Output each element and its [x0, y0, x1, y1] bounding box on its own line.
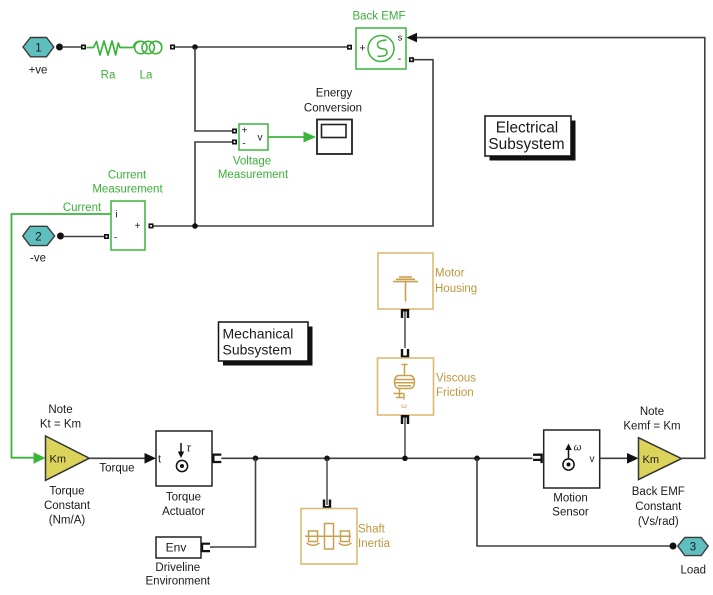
- svg-text:Ra: Ra: [101, 70, 116, 82]
- svg-text:Torque: Torque: [49, 486, 84, 498]
- svg-text:Motion: Motion: [553, 493, 588, 505]
- scope Energy Conversion: [317, 120, 352, 155]
- svg-text:+: +: [135, 221, 141, 232]
- Voltage Measurement + connector square: [232, 129, 237, 134]
- block Motion Sensor: [544, 430, 600, 488]
- node square right of inductor: [170, 45, 175, 50]
- port 2 (-ve): [23, 226, 55, 264]
- svg-text:-: -: [398, 53, 402, 65]
- svg-text:(Vs/rad): (Vs/rad): [638, 516, 679, 528]
- arrowhead into torque actuator: [145, 453, 157, 464]
- svg-text:i: i: [115, 210, 117, 221]
- wire shaft junction down to Load port: [477, 458, 670, 546]
- annotation Electrical Subsystem: [485, 116, 576, 161]
- svg-text:Friction: Friction: [436, 387, 474, 399]
- junction to Env: [253, 456, 259, 462]
- port 3 (Load): [678, 537, 708, 576]
- svg-text:Energy: Energy: [316, 88, 353, 100]
- svg-text:Sensor: Sensor: [552, 507, 589, 519]
- gain Km Torque Constant: [46, 436, 90, 480]
- svg-text:Voltage: Voltage: [233, 156, 271, 168]
- svg-text:Inertia: Inertia: [358, 538, 391, 550]
- junction node B: [192, 223, 198, 229]
- wire port2 to current measurement -: [63, 236, 104, 238]
- Shaft Inertia top port bracket: [323, 500, 331, 509]
- junction to Load: [474, 456, 480, 462]
- damper Viscous Friction: [378, 358, 434, 415]
- svg-text:(Nm/A): (Nm/A): [49, 515, 86, 527]
- svg-text:Housing: Housing: [435, 283, 477, 295]
- voltage source U1 Back EMF: [356, 28, 406, 69]
- svg-text:+: +: [359, 43, 365, 55]
- port 1 (+ve): [23, 38, 54, 77]
- Voltage Measurement - connector square: [232, 140, 237, 145]
- svg-text:Kt = Km: Kt = Km: [40, 418, 81, 430]
- Motion Sensor input port bracket: [533, 454, 543, 464]
- Torque Actuator output port bracket: [212, 454, 221, 464]
- Viscous Friction top port bracket: [401, 349, 409, 358]
- svg-text:1: 1: [35, 43, 41, 55]
- svg-text:+ve: +ve: [29, 65, 48, 77]
- Env output port bracket: [201, 543, 210, 553]
- svg-text:s: s: [398, 33, 403, 44]
- svg-text:v: v: [590, 454, 595, 465]
- wire Motor Housing to Viscous Friction: [404, 312, 406, 349]
- svg-text:Current: Current: [63, 202, 102, 214]
- junction to Viscous Friction: [402, 456, 408, 462]
- svg-text:Actuator: Actuator: [162, 506, 205, 518]
- wire Env to shaft: [210, 458, 256, 547]
- resistor Ra: [87, 41, 134, 55]
- inductor La: [134, 41, 163, 53]
- svg-text:ω: ω: [574, 443, 582, 454]
- wire node A down to voltage measurement +: [195, 48, 233, 131]
- port 1 output dot: [56, 44, 63, 51]
- arrowhead into Back EMF Constant gain: [627, 453, 639, 464]
- svg-text:Driveline: Driveline: [155, 562, 200, 574]
- svg-text:Load: Load: [681, 565, 707, 577]
- svg-text:Constant: Constant: [44, 500, 91, 512]
- svg-text:2: 2: [35, 232, 41, 244]
- block Torque Actuator: [156, 431, 212, 486]
- svg-text:Subsystem: Subsystem: [223, 342, 292, 358]
- block Motor Housing: [378, 253, 433, 309]
- wire motion sensor to gain: [600, 457, 628, 459]
- svg-text:Conversion: Conversion: [304, 103, 362, 115]
- wire port1 to node: [62, 46, 82, 48]
- svg-text:Kemf = Km: Kemf = Km: [623, 420, 680, 432]
- svg-text:t: t: [158, 454, 161, 466]
- svg-text:Env: Env: [166, 541, 187, 555]
- junction node A: [192, 44, 198, 50]
- svg-text:v: v: [258, 133, 263, 144]
- wire inductor node to Back EMF +: [175, 46, 347, 48]
- annotation Mechanical Subsystem: [219, 322, 313, 366]
- wire shaft to Shaft Inertia: [326, 458, 328, 505]
- svg-text:Constant: Constant: [635, 501, 682, 513]
- svg-text:Note: Note: [48, 404, 72, 416]
- wire current measurement + to Back EMF - (bottom run): [153, 60, 433, 226]
- wire s input from right edge: [417, 38, 705, 459]
- node square left of resistor: [81, 45, 86, 50]
- Motor Housing bottom port bracket: [401, 309, 409, 318]
- shaft wire (mechanical line): [221, 457, 532, 459]
- svg-text:Note: Note: [640, 406, 664, 418]
- Back EMF - output connector square: [409, 57, 414, 62]
- svg-text:-: -: [242, 139, 245, 150]
- svg-text:Electrical: Electrical: [496, 120, 558, 137]
- svg-text:ω: ω: [401, 403, 407, 410]
- svg-text:+: +: [242, 126, 248, 137]
- svg-text:Current: Current: [108, 170, 147, 182]
- svg-text:-: -: [114, 233, 117, 244]
- svg-text:Km: Km: [643, 454, 660, 466]
- svg-text:Motor: Motor: [435, 268, 465, 280]
- green arrowhead into scope: [304, 132, 317, 143]
- Back EMF s input arrowhead: [407, 33, 418, 43]
- voltmeter Voltage Measurement: [239, 124, 268, 150]
- svg-text:-ve: -ve: [30, 253, 46, 265]
- green wire Current (i output to Km gain): [12, 214, 112, 458]
- svg-text:Measurement: Measurement: [92, 184, 163, 196]
- svg-text:Mechanical: Mechanical: [223, 326, 294, 342]
- block Env Driveline Environment: [156, 537, 201, 558]
- wire voltage measurement - down to node B: [195, 142, 233, 226]
- gain Km Back EMF Constant: [639, 438, 682, 480]
- svg-text:Torque: Torque: [99, 462, 134, 474]
- svg-text:Subsystem: Subsystem: [488, 136, 564, 153]
- svg-text:Viscous: Viscous: [436, 373, 476, 385]
- inertia block Shaft Inertia: [301, 509, 357, 565]
- wire gain to torque actuator: [89, 457, 145, 459]
- wire Viscous Friction to shaft: [404, 418, 406, 459]
- ammeter Current Measurement: [111, 201, 145, 250]
- svg-text:Shaft: Shaft: [358, 524, 386, 536]
- junction to Shaft Inertia: [324, 456, 330, 462]
- svg-text:Environment: Environment: [146, 576, 211, 588]
- Back EMF + input connector square: [347, 45, 352, 50]
- svg-text:Measurement: Measurement: [218, 169, 289, 181]
- Current Measurement - input connector square: [104, 234, 109, 239]
- green arrowhead into Km gain: [34, 452, 46, 463]
- port 2 output dot: [57, 233, 64, 240]
- svg-text:3: 3: [690, 542, 696, 554]
- wire v output green: [268, 136, 304, 138]
- svg-text:La: La: [140, 70, 153, 82]
- Viscous Friction bottom port bracket: [401, 415, 409, 424]
- port 3 input dot: [670, 543, 677, 550]
- Current Measurement + output connector square: [149, 223, 154, 228]
- svg-text:Km: Km: [50, 454, 67, 466]
- svg-text:Torque: Torque: [166, 492, 201, 504]
- svg-text:Back EMF: Back EMF: [632, 486, 685, 498]
- svg-text:Back EMF: Back EMF: [352, 11, 405, 23]
